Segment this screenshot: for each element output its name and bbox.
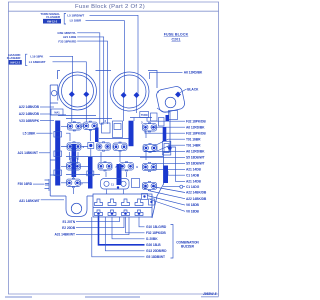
svg-text:10: 10 (80, 182, 84, 186)
fuse block left edge (50, 85, 58, 196)
turn signal flasher HW-12-2 box (43, 19, 61, 24)
junction notch on B3 (70, 158, 77, 163)
fuse block C201 callout (164, 33, 189, 42)
fuse row2 right (143, 143, 157, 152)
left socket terminal 2 (83, 91, 89, 97)
busbar B2 (88, 157, 93, 189)
svg-text:G13 20DB/RD: G13 20DB/RD (146, 249, 167, 253)
pin box (142, 194, 148, 200)
fuse 4 (67, 142, 81, 151)
wire (130, 118, 152, 122)
right mount lug (155, 85, 185, 113)
fuse 8 (98, 162, 112, 171)
wire (101, 152, 120, 162)
bottom edge left (50, 195, 93, 197)
svg-text:L19 18PK: L19 18PK (30, 54, 44, 58)
svg-text:11: 11 (111, 182, 114, 186)
svg-text:T91 16BR: T91 16BR (186, 137, 201, 141)
svg-text:A21 14BK/WT: A21 14BK/WT (17, 151, 38, 155)
fuse 10 (66, 178, 80, 187)
svg-text:G26 18LB: G26 18LB (146, 243, 161, 247)
busbar B5 (129, 121, 134, 147)
svg-text:A6 12RD/BK: A6 12RD/BK (186, 125, 205, 129)
junction dot (168, 146, 172, 150)
relay box 2 (102, 123, 111, 133)
svg-text:Fuse Block (Part 2 Of 2): Fuse Block (Part 2 Of 2) (75, 4, 145, 10)
lug attach lines (157, 92, 164, 112)
wire (61, 126, 67, 183)
wire to G26 (99, 216, 145, 245)
right socket terminal 2 (134, 92, 140, 98)
footer mark center (85, 296, 140, 298)
wire to I1 (112, 217, 145, 239)
wire (145, 131, 147, 160)
fuse 3 (143, 123, 157, 132)
fuse 9 (120, 162, 134, 171)
svg-text:A21 14DB: A21 14DB (186, 180, 201, 184)
wire (106, 172, 127, 177)
svg-text:HW-12-2: HW-12-2 (10, 62, 20, 65)
right socket terminal 1 (121, 92, 127, 98)
left socket outer circle (59, 72, 97, 110)
pin top 4 (135, 199, 143, 206)
left tab hole (52, 91, 57, 96)
page border top line (8, 1, 219, 3)
fuse 7 (66, 162, 80, 171)
svg-text:C1 14DB: C1 14DB (186, 173, 200, 177)
svg-text:S5 18DB/WT: S5 18DB/WT (186, 161, 205, 165)
connector inner line (93, 207, 152, 209)
busbar junction boxes on B1 (54, 132, 62, 138)
wire (66, 133, 70, 141)
svg-text:A31 14BK/WT: A31 14BK/WT (19, 199, 40, 203)
connector body (93, 194, 152, 217)
wire (66, 118, 112, 120)
TURN label (140, 112, 149, 118)
page border left (8, 2, 10, 294)
svg-text:TURN: TURN (141, 114, 148, 117)
page border right (218, 2, 220, 297)
hazard flasher HW-12-2 box (9, 60, 22, 65)
edge module dark insert (166, 115, 170, 121)
page border bottom (8, 293, 219, 295)
fuse F2 (83, 121, 97, 130)
svg-text:FLASHER: FLASHER (7, 56, 22, 60)
svg-text:A6 12RD/BK: A6 12RD/BK (186, 149, 205, 153)
wire (69, 152, 78, 160)
svg-text:C1 14DG: C1 14DG (186, 185, 200, 189)
busbar B9 (163, 127, 167, 141)
svg-text:A6 12RD/BK: A6 12RD/BK (184, 70, 203, 74)
svg-text:A22 14BK/DB: A22 14BK/DB (186, 197, 207, 201)
wire (66, 156, 163, 158)
right lug hatch corner (175, 92, 181, 98)
pin top 1 (95, 199, 103, 206)
svg-text:F32 18PK/DB: F32 18PK/DB (146, 231, 166, 235)
busbar B8 (163, 166, 168, 184)
bottom-left mount hole (71, 203, 81, 213)
svg-text:V23 16BR/PK: V23 16BR/PK (19, 119, 40, 123)
svg-text:F30 16RD: F30 16RD (18, 182, 33, 186)
edge box row2 (162, 141, 170, 155)
svg-text:BLACK: BLACK (187, 88, 199, 92)
pin bottom 4 (135, 210, 143, 216)
wire to G5 (92, 217, 145, 257)
fuse 6 (113, 142, 127, 151)
svg-text:FLASHER: FLASHER (46, 15, 61, 19)
svg-text:J958W-5: J958W-5 (203, 292, 217, 296)
svg-text:F32 18PK/DB: F32 18PK/DB (186, 131, 206, 135)
bottom-left mount tab (66, 196, 87, 217)
right socket inner circle (113, 75, 146, 108)
svg-text:HW-12-2: HW-12-2 (47, 20, 58, 24)
fuse block top-left corner (56, 71, 58, 80)
relay box row1 (113, 121, 123, 138)
footer mark left (5, 296, 32, 298)
busbar B4 (95, 128, 99, 143)
bracket hazard (26, 54, 28, 65)
svg-text:L5 18BK: L5 18BK (23, 131, 36, 135)
svg-text:E2 20DB: E2 20DB (62, 226, 76, 230)
shelf line (50, 103, 66, 115)
busbar B7 (117, 164, 122, 185)
wire to G13 (105, 217, 144, 251)
pin top 3 (122, 199, 130, 206)
svg-text:I1 20BK: I1 20BK (146, 237, 158, 241)
svg-text:FUSE BLOCK: FUSE BLOCK (164, 33, 189, 37)
busbar B3 (72, 144, 77, 177)
wire (58, 115, 96, 117)
svg-text:T91 14BR: T91 14BR (186, 143, 201, 147)
bracket combination buzzer (171, 225, 174, 259)
pin box (149, 199, 155, 205)
right lug hole (165, 97, 176, 108)
MA1 box (51, 109, 63, 115)
svg-text:BUZZER: BUZZER (181, 245, 195, 249)
svg-text:A22 14BK/DB: A22 14BK/DB (19, 112, 40, 116)
svg-text:L5 18RD/WT: L5 18RD/WT (67, 13, 84, 17)
svg-text:12: 12 (144, 186, 148, 190)
wire to G10 (139, 217, 145, 227)
small box row4 (132, 179, 140, 188)
wire (89, 130, 91, 141)
wire (80, 126, 88, 183)
svg-text:F33 18PK/RD: F33 18PK/RD (58, 39, 77, 43)
svg-text:A21 14DB: A21 14DB (186, 167, 201, 171)
svg-text:MA1: MA1 (54, 112, 60, 115)
left socket wire stubs (73, 89, 87, 93)
title underline (8, 10, 219, 12)
wire (50, 160, 60, 175)
svg-text:L1 18BK/WT: L1 18BK/WT (29, 60, 46, 64)
svg-text:C201: C201 (171, 37, 180, 41)
small boxes under lug (151, 113, 158, 121)
wire from right socket terminals down (124, 97, 137, 121)
bracket turn signal (64, 14, 66, 25)
wire (100, 121, 108, 124)
relay 11 long (101, 179, 130, 190)
svg-text:V6 18DB: V6 18DB (186, 203, 200, 207)
svg-text:E1 20TN: E1 20TN (63, 220, 76, 224)
pin bottom 1 (95, 210, 103, 216)
svg-text:L5 18BR: L5 18BR (70, 19, 82, 23)
svg-text:S5 18DB/WT: S5 18DB/WT (186, 155, 205, 159)
svg-text:G10 18LG/RD: G10 18LG/RD (146, 225, 167, 229)
right socket outer circle (110, 72, 149, 111)
wire stubs to connector (73, 149, 123, 195)
busbar B1 (55, 121, 60, 186)
junction notch on B2 (87, 171, 94, 176)
wire (99, 138, 129, 140)
wire to F32 (126, 217, 145, 233)
pin top 2 (108, 199, 116, 206)
svg-text:A31 14BK/WT: A31 14BK/WT (54, 233, 75, 237)
fuse 5 (97, 142, 111, 151)
fuse row3 right (143, 162, 157, 171)
wire from left socket terminals down (72, 97, 87, 123)
fuse block top edge (57, 71, 157, 89)
svg-text:G5 18DB/WT: G5 18DB/WT (146, 255, 165, 259)
right edge (152, 112, 170, 218)
svg-text:F32 18PK/DB: F32 18PK/DB (186, 119, 206, 123)
svg-text:A22 14BK/DB: A22 14BK/DB (186, 191, 207, 195)
fuse 12 (143, 181, 157, 190)
fuse 1 (67, 122, 81, 131)
wire (72, 171, 74, 178)
left socket terminal 1 (69, 91, 75, 97)
junction box (88, 143, 94, 149)
left socket inner circle (62, 75, 94, 107)
right socket wire stubs (125, 89, 139, 94)
pin bottom 2 (108, 210, 116, 216)
pin bottom 3 (122, 210, 130, 216)
svg-text:V6 18DB: V6 18DB (186, 209, 200, 213)
edge box row1 (159, 118, 165, 127)
svg-text:A22 14BK/DB: A22 14BK/DB (19, 105, 40, 109)
wire (66, 174, 100, 176)
